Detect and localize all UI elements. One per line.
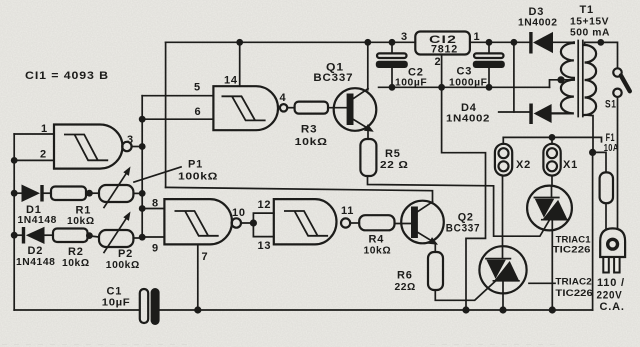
potentiometer P2 100k <box>99 212 133 253</box>
wire gate1 pin 2 input <box>14 159 54 161</box>
resistor R4 10k <box>359 215 394 230</box>
wire ground rail (C2/C3/pin2/center-tap) <box>379 86 550 88</box>
node chain P1 <box>139 190 146 197</box>
wire primary top lead <box>585 42 601 45</box>
wire gate3 pin 9 input <box>142 236 164 238</box>
svg-text:2: 2 <box>435 56 442 68</box>
node C3 bottom ground <box>486 84 493 91</box>
svg-text:1N4148: 1N4148 <box>18 215 57 226</box>
node ground link on rail <box>462 306 469 313</box>
svg-text:3: 3 <box>401 31 408 43</box>
wire X2 bottom lead to TRIAC2 MT2 <box>502 176 504 247</box>
wire D4 cathode stub <box>499 111 530 113</box>
node D2 cathode <box>11 232 18 239</box>
svg-text:13: 13 <box>258 240 272 252</box>
wire X terminals rail <box>503 137 601 141</box>
node R1-P1 <box>86 190 93 197</box>
svg-text:S1: S1 <box>605 99 617 111</box>
svg-text:1N4148: 1N4148 <box>16 257 55 268</box>
wire D2 cathode <box>14 234 22 236</box>
node Q1 collector on +12 rail <box>364 39 371 46</box>
transformer T1 secondary winding <box>552 42 574 113</box>
svg-text:BC337: BC337 <box>313 72 353 84</box>
triac TRIAC1 MT1 lead to rail <box>551 230 553 310</box>
svg-text:R1: R1 <box>76 205 92 217</box>
wire gate4 output to R4 <box>350 222 359 224</box>
node C2 top <box>389 39 396 46</box>
node CI2 pin2 ground <box>438 84 445 91</box>
wire R3 to Q1 base <box>328 107 348 109</box>
svg-text:P2: P2 <box>118 248 133 260</box>
resistor R1 10k <box>51 187 86 201</box>
svg-text:1: 1 <box>474 31 481 43</box>
wire D1 cathode to R1 <box>44 192 51 194</box>
wire X1 bottom lead to TRIAC1 MT2 <box>551 176 553 186</box>
node D3 cathode <box>511 39 518 46</box>
transistor Q1 BC337 <box>334 88 377 132</box>
svg-text:T1: T1 <box>580 4 594 16</box>
wire R6 bottom to TRIAC2 gate <box>435 281 495 300</box>
wire feedback chain vertical <box>141 96 143 238</box>
svg-text:TIC226: TIC226 <box>553 245 591 256</box>
transformer T1 core <box>578 41 583 117</box>
wire left rail vertical <box>13 134 15 310</box>
svg-text:R5: R5 <box>385 148 401 160</box>
svg-text:BC337: BC337 <box>446 223 481 235</box>
transistor Q2 BC337 <box>401 201 444 245</box>
svg-text:TRIAC2: TRIAC2 <box>555 277 592 288</box>
wire D1 anode <box>14 192 21 194</box>
nand gate U1c (pins 8,9,10) <box>164 199 241 244</box>
svg-text:6: 6 <box>195 106 202 118</box>
wire bottom mains rail left of C1 <box>14 309 140 311</box>
wire center tap step to ground rail <box>550 80 574 88</box>
svg-text:1: 1 <box>41 123 48 135</box>
fuse F1 10A <box>600 172 613 203</box>
wire gate2 pin 6 input <box>142 118 213 120</box>
wire X2 top lead <box>502 137 504 144</box>
wire gate2 pin 5 input <box>142 95 213 97</box>
svg-text:11: 11 <box>341 205 354 217</box>
wire C3 top stub <box>488 42 490 53</box>
svg-text:10kΩ: 10kΩ <box>295 137 328 148</box>
svg-text:22 Ω: 22 Ω <box>380 160 409 171</box>
svg-text:1000µF: 1000µF <box>449 78 487 89</box>
svg-text:5: 5 <box>194 82 201 94</box>
node chain gate1 out <box>139 143 146 150</box>
terminal X1 <box>543 144 560 176</box>
svg-text:110 /: 110 / <box>597 277 625 289</box>
node chain pin6 <box>139 116 146 123</box>
wire P2 wiper to chain <box>133 237 142 239</box>
wire C2 bottom stub <box>391 68 393 87</box>
potentiometer P1 100k <box>99 167 181 208</box>
svg-text:TIC226: TIC226 <box>555 288 593 299</box>
svg-text:2: 2 <box>40 149 47 161</box>
wire +12V left drop from rail corner <box>165 42 167 187</box>
node primary top <box>597 39 604 46</box>
resistor R3 10k <box>295 102 328 114</box>
svg-text:22Ω: 22Ω <box>395 282 416 293</box>
svg-text:R6: R6 <box>397 270 413 282</box>
regulator CI2 7812 box <box>415 32 470 55</box>
node chain pin8 <box>139 205 146 212</box>
node C2 bottom ground <box>389 84 396 91</box>
node gate3 out <box>250 219 257 226</box>
transformer T1 primary winding <box>585 45 597 115</box>
wire Q1 emitter to R5 <box>367 130 369 139</box>
wire bottom mains rail right of C1 <box>160 309 593 311</box>
node center tap <box>557 76 564 83</box>
svg-text:C1: C1 <box>107 286 123 298</box>
terminal X2 <box>495 144 512 176</box>
diode D4 1N4002 <box>529 104 551 125</box>
wire R5 emitter net to TRIAC1 gate <box>368 176 551 236</box>
triac TRIAC2 MT1 lead to rail <box>502 293 504 310</box>
node pin14 on +12 rail <box>236 39 243 46</box>
label TRIAC2 leader line <box>529 282 555 284</box>
wire ground zigzag CI2 pin2 down and right <box>442 55 486 311</box>
svg-text:100kΩ: 100kΩ <box>178 172 218 183</box>
switch S1 <box>613 68 630 97</box>
svg-text:1N4002: 1N4002 <box>518 18 558 29</box>
wire D3 anode to winding top <box>553 41 574 43</box>
svg-text:12: 12 <box>258 199 272 211</box>
wire D2 anode to R2 <box>45 234 54 236</box>
wire X1 top lead <box>551 137 553 144</box>
wire gate3 pin 7 down to rail <box>197 244 199 310</box>
wire D3/D4 cathodes vertical <box>513 42 515 112</box>
svg-text:10µF: 10µF <box>102 298 131 309</box>
wire right mains riser <box>592 152 594 310</box>
node C3 top <box>486 39 493 46</box>
wire C3 bottom stub <box>488 68 490 87</box>
wire +12V top rail right segment (box to D3) <box>470 41 529 43</box>
svg-text:R3: R3 <box>301 124 318 136</box>
svg-text:D2: D2 <box>28 245 44 257</box>
svg-text:10kΩ: 10kΩ <box>364 246 392 257</box>
svg-text:7: 7 <box>202 251 209 263</box>
resistor R6 22R <box>428 252 443 290</box>
resistor R2 10k <box>53 229 88 243</box>
wire gate3 pin 8 input <box>142 208 164 210</box>
nand gate U1d (pins 12,13,11) <box>274 199 350 244</box>
svg-text:D3: D3 <box>529 6 545 18</box>
capacitor C1 10uF <box>140 288 160 325</box>
node R2-P2 <box>86 232 93 239</box>
triac TRIAC1 TIC226 <box>527 186 572 231</box>
wire +12V top rail left segment <box>166 41 416 43</box>
wire S1 bottom lead to plug <box>617 97 619 229</box>
nand gate U1a (pins 1,2,3) <box>54 125 132 169</box>
node gate1 pin2 <box>11 157 18 164</box>
svg-text:P1: P1 <box>188 159 203 171</box>
svg-text:100kΩ: 100kΩ <box>106 260 140 271</box>
wire S1 top from transformer <box>601 42 618 68</box>
capacitor C2 100uF <box>376 53 408 68</box>
wire R4 to Q2 base <box>395 223 413 225</box>
diode D2 1N4148 <box>22 227 45 244</box>
wire +12V long run to Q2 collector <box>166 187 433 202</box>
diode D1 1N4148 <box>22 185 44 203</box>
wire gate3 output node stubs to gate4 pins 12,13 <box>241 213 274 237</box>
wire fuse bottom lead to plug <box>605 203 607 228</box>
wire C2 top stub <box>391 42 393 53</box>
svg-text:10kΩ: 10kΩ <box>62 258 90 269</box>
capacitor C3 1000uF <box>473 53 505 68</box>
diode D3 1N4002 <box>529 32 553 54</box>
wire Q2 emitter to R6 <box>434 244 436 252</box>
node fuse/primary bottom <box>589 149 596 156</box>
svg-text:7812: 7812 <box>431 44 458 56</box>
svg-text:220V: 220V <box>597 290 623 302</box>
wire Q1 collector to +12V rail <box>367 42 369 90</box>
svg-text:100µF: 100µF <box>395 78 427 89</box>
svg-text:X1: X1 <box>563 159 578 171</box>
svg-text:1N4002: 1N4002 <box>446 114 490 125</box>
svg-text:14: 14 <box>224 75 238 87</box>
svg-text:8: 8 <box>152 198 159 210</box>
node TRIAC2 MT1 on rail <box>499 306 506 313</box>
node TRIAC1 MT1 on rail <box>549 306 556 313</box>
svg-text:10kΩ: 10kΩ <box>67 216 95 227</box>
svg-text:CI1 = 4093 B: CI1 = 4093 B <box>25 70 109 82</box>
wire R1 to P1 <box>86 192 99 194</box>
nand gate U1b (pins 5,6,4) <box>213 86 287 130</box>
svg-text:9: 9 <box>152 243 159 255</box>
svg-text:D4: D4 <box>461 102 477 114</box>
wire gate1 output to chain <box>131 146 142 148</box>
mains plug body <box>600 228 625 272</box>
svg-text:10A: 10A <box>604 143 619 154</box>
node X1 rail <box>549 134 556 141</box>
wire pin 14 to +12V rail <box>239 42 241 86</box>
svg-text:C.A.: C.A. <box>600 301 625 313</box>
node chain pin9/P2 <box>139 234 146 241</box>
svg-text:X2: X2 <box>516 159 531 171</box>
svg-text:15+15V: 15+15V <box>570 17 609 28</box>
node D1 anode <box>11 190 18 197</box>
scan artifact streak at bottom edge <box>2 344 560 346</box>
wire P1 wiper to chain <box>133 192 142 194</box>
resistor R5 22R <box>360 139 376 176</box>
svg-text:3: 3 <box>127 134 134 146</box>
svg-text:500 mA: 500 mA <box>570 28 610 39</box>
svg-text:4: 4 <box>280 92 287 104</box>
svg-text:C3: C3 <box>457 66 473 78</box>
node pin7 on rail <box>194 306 201 313</box>
svg-text:10: 10 <box>232 207 246 219</box>
svg-text:R2: R2 <box>68 246 84 258</box>
wire fuse top jog <box>593 152 606 172</box>
wire primary bottom lead <box>585 115 593 152</box>
svg-text:R4: R4 <box>369 234 385 246</box>
triac TRIAC2 TIC226 <box>479 246 526 293</box>
wire R2 to P2 <box>88 236 100 237</box>
wire gate1 pin 1 input <box>14 133 54 135</box>
wire gate2 output to R3 <box>287 107 294 109</box>
